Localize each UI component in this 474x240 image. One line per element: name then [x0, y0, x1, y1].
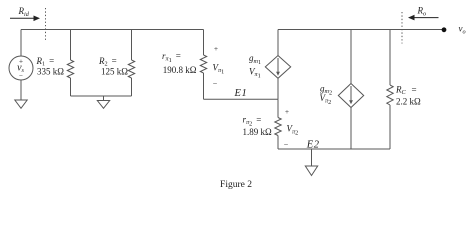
wire vs top stem [20, 30, 22, 57]
svg-text:335 kΩ: 335 kΩ [37, 66, 64, 76]
arrow inside gm2 [350, 86, 352, 101]
svg-text:E2: E2 [306, 139, 320, 150]
voltage source vs [9, 56, 33, 80]
ground below R1-R2 wire [97, 96, 109, 108]
ground below E2 [305, 149, 317, 176]
svg-text:E1: E1 [234, 88, 248, 99]
wire gm2 bottom stem [350, 108, 352, 150]
resistor RC [387, 85, 393, 105]
svg-text:2.2 kΩ: 2.2 kΩ [396, 96, 421, 106]
svg-text:rπ2 =: rπ2 = [243, 115, 262, 128]
wire node E2 [278, 148, 390, 150]
dotted marker line left (Rid) [45, 8, 47, 41]
svg-text:rπ1 =: rπ1 = [162, 51, 181, 64]
Rid arrow [10, 16, 40, 22]
arrow inside gm1 [277, 58, 279, 73]
wire R1 bottom [70, 78, 72, 96]
resistor rpi1 [200, 55, 206, 73]
svg-text:1.89 kΩ: 1.89 kΩ [243, 127, 273, 137]
wire gm1 top stem [277, 30, 279, 56]
wire top-left net B [21, 29, 204, 31]
wire node E1 [204, 98, 279, 100]
ground below vs [15, 100, 27, 108]
wire top-right output net [278, 29, 444, 31]
svg-text:+: + [285, 107, 289, 116]
svg-text:190.8 kΩ: 190.8 kΩ [163, 65, 197, 75]
svg-text:+: + [214, 44, 218, 53]
svg-text:Vπ2: Vπ2 [287, 124, 299, 137]
wire R2 bottom [131, 78, 133, 96]
svg-text:gm1: gm1 [249, 53, 261, 66]
svg-text:125 kΩ: 125 kΩ [101, 66, 128, 76]
resistor R1 [67, 60, 73, 78]
svg-text:Vπ1: Vπ1 [213, 62, 225, 75]
wire R1 top [70, 30, 72, 61]
wire rpi1 bottom [203, 73, 205, 99]
svg-text:Rid: Rid [18, 6, 30, 18]
resistor R2 [128, 60, 134, 78]
wire R2 top [131, 30, 133, 61]
Ro arrow [408, 15, 439, 21]
resistor rpi2 [275, 118, 281, 136]
wire rpi1 top [203, 30, 205, 56]
wire gm2 top stem [350, 30, 352, 84]
svg-text:−: − [284, 140, 289, 149]
wire rpi2 top [277, 99, 279, 117]
svg-text:−: − [19, 72, 23, 80]
wire RC top [389, 30, 391, 86]
svg-text:Vπ1: Vπ1 [249, 67, 261, 80]
svg-text:−: − [213, 79, 218, 88]
output terminal dot [442, 27, 447, 32]
dependent source gm2 Vpi2 [338, 84, 363, 108]
svg-text:RC =: RC = [395, 85, 417, 97]
svg-text:Figure 2: Figure 2 [220, 180, 252, 190]
dependent source gm1 Vpi1 [265, 56, 290, 79]
wire gm1 bottom stem [277, 78, 279, 99]
wire RC bottom [389, 105, 391, 149]
dotted marker line right (Ro) [401, 12, 403, 44]
svg-text:Ro: Ro [417, 6, 427, 18]
wire R1-R2 bottom [71, 95, 132, 97]
wire rpi2 bottom [277, 136, 279, 150]
wire vs bottom stem [20, 80, 22, 100]
svg-text:vo: vo [459, 24, 466, 36]
